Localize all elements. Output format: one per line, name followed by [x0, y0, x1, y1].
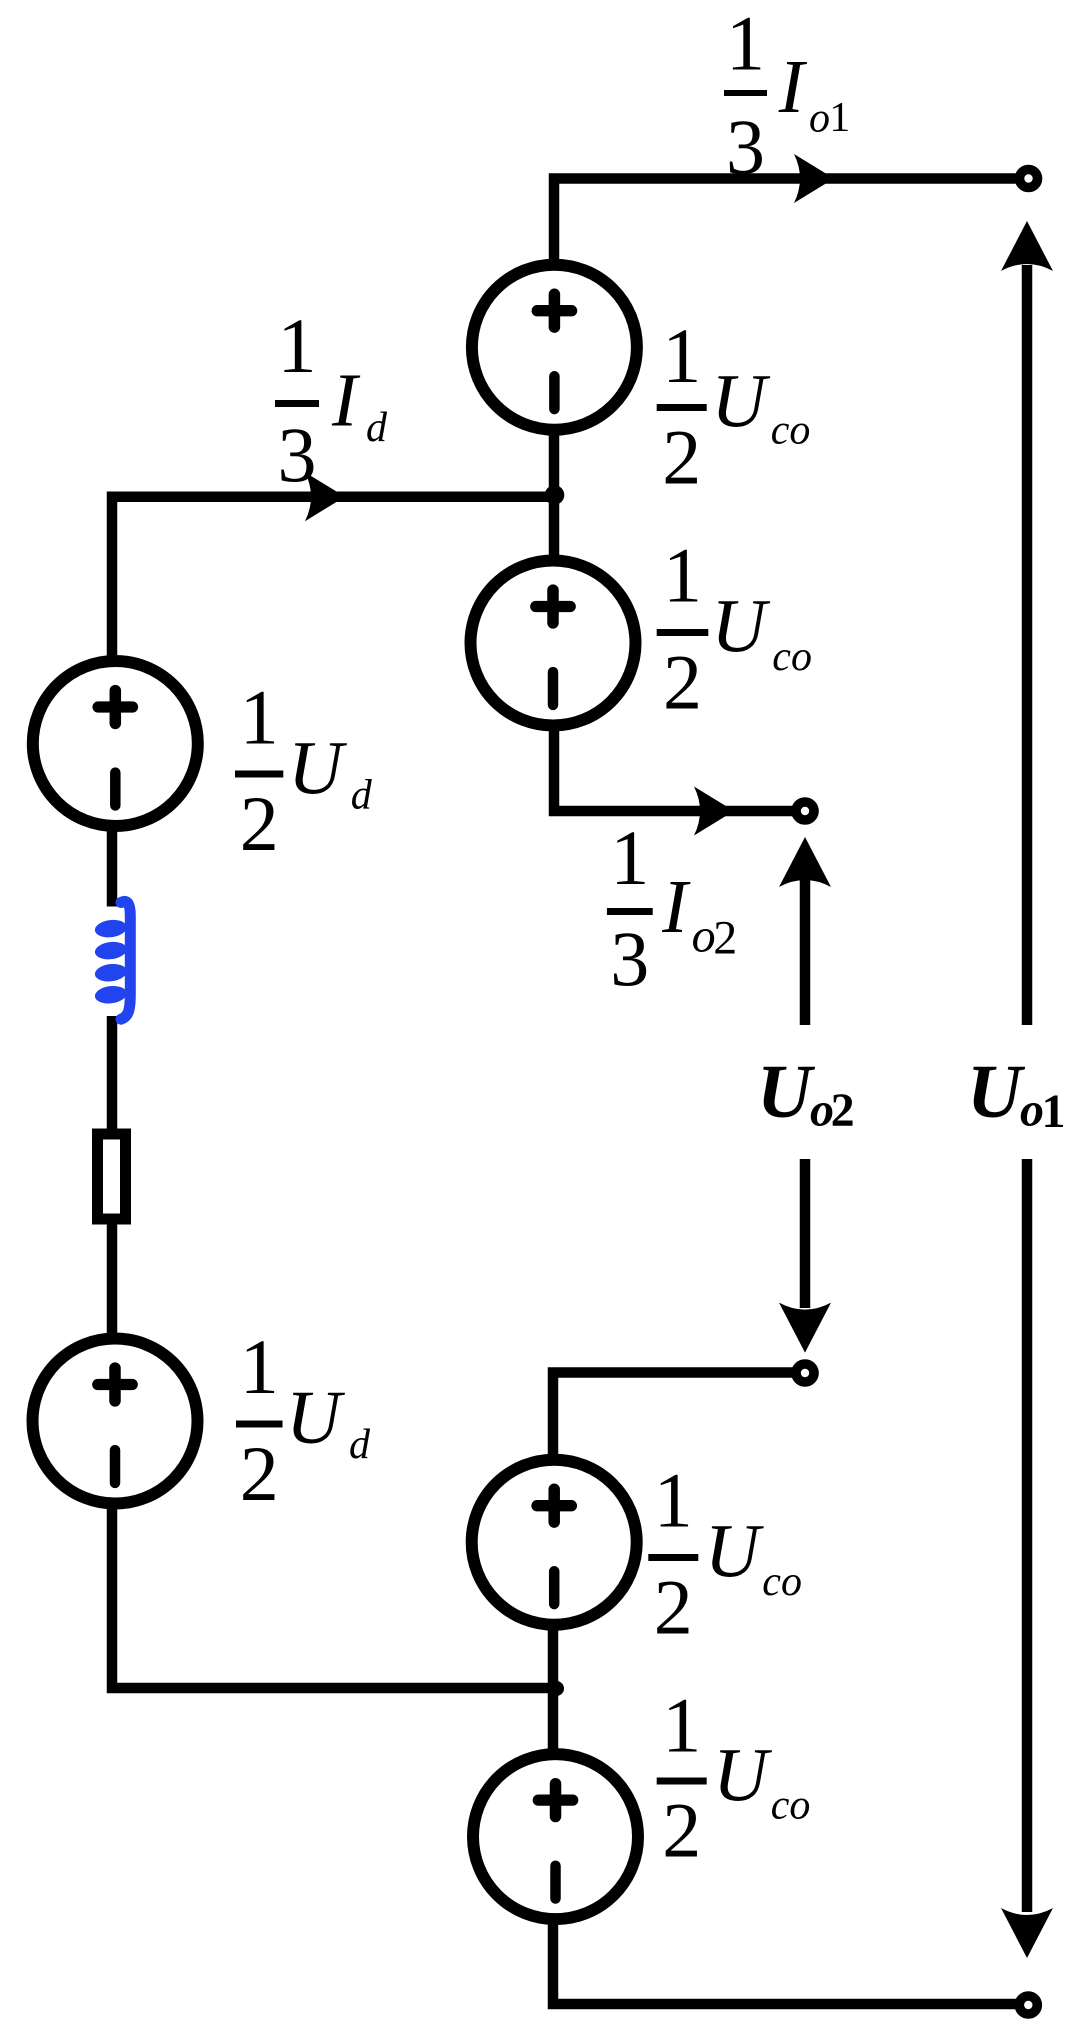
svg-text:I: I — [661, 865, 691, 949]
svg-text:1: 1 — [610, 814, 649, 901]
svg-text:2: 2 — [240, 780, 279, 867]
svg-text:U: U — [286, 1376, 345, 1460]
svg-text:1: 1 — [726, 0, 765, 86]
svg-text:2: 2 — [662, 1787, 701, 1874]
svg-text:U: U — [713, 1733, 772, 1817]
svg-text:2: 2 — [831, 1084, 855, 1137]
svg-text:1: 1 — [829, 95, 850, 141]
svg-text:1: 1 — [662, 312, 701, 399]
svg-text:3: 3 — [726, 103, 765, 190]
svg-text:2: 2 — [662, 414, 701, 501]
svg-text:d: d — [366, 405, 388, 451]
svg-text:co: co — [762, 1559, 802, 1605]
svg-text:U: U — [705, 1510, 764, 1594]
svg-text:2: 2 — [663, 638, 702, 725]
svg-text:1: 1 — [1042, 1085, 1066, 1138]
svg-text:o: o — [1020, 1084, 1044, 1137]
svg-text:U: U — [711, 360, 770, 444]
svg-text:co: co — [771, 407, 811, 453]
svg-text:o: o — [809, 96, 830, 142]
svg-text:U: U — [711, 585, 770, 669]
svg-text:1: 1 — [654, 1457, 693, 1544]
svg-text:d: d — [349, 1422, 371, 1468]
svg-text:co: co — [772, 634, 812, 680]
svg-text:3: 3 — [278, 411, 317, 498]
svg-text:co: co — [771, 1782, 811, 1828]
svg-text:I: I — [331, 358, 361, 442]
svg-text:1: 1 — [240, 1323, 279, 1410]
svg-text:o: o — [692, 910, 716, 963]
svg-text:1: 1 — [662, 1682, 701, 1769]
svg-text:U: U — [967, 1050, 1026, 1134]
svg-text:2: 2 — [713, 912, 737, 965]
svg-text:I: I — [778, 45, 808, 129]
svg-text:U: U — [757, 1050, 816, 1134]
svg-text:1: 1 — [278, 302, 317, 389]
svg-text:1: 1 — [240, 673, 279, 760]
svg-text:2: 2 — [654, 1563, 693, 1650]
svg-text:U: U — [288, 726, 347, 810]
svg-text:1: 1 — [663, 532, 702, 619]
svg-text:3: 3 — [610, 915, 649, 1002]
svg-text:d: d — [351, 772, 373, 818]
svg-text:2: 2 — [240, 1430, 279, 1517]
